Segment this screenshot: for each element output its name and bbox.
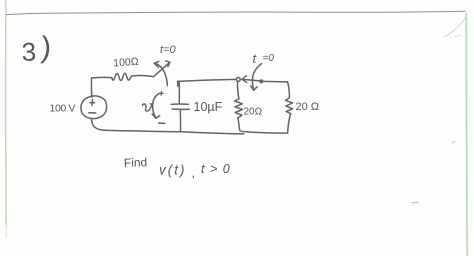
svg-text:,: ,	[192, 165, 196, 180]
svg-text:Find: Find	[124, 155, 148, 170]
svg-text:3: 3	[21, 37, 37, 67]
svg-text:100 V: 100 V	[50, 103, 76, 115]
svg-text:t > 0: t > 0	[201, 162, 231, 176]
svg-text:t=0: t=0	[160, 44, 176, 56]
svg-text:v(t): v(t)	[159, 163, 187, 178]
svg-text:20Ω: 20Ω	[244, 107, 263, 118]
svg-text:10µF: 10µF	[194, 100, 223, 114]
svg-text:100Ω: 100Ω	[113, 56, 139, 70]
svg-text:=0: =0	[263, 53, 275, 64]
svg-text:20 Ω: 20 Ω	[296, 101, 320, 113]
